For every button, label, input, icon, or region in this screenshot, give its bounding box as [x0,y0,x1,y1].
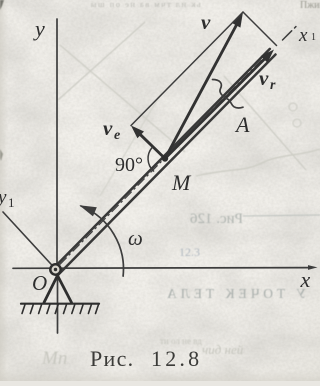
ghost rule right of mirrored caption [243,215,320,216]
parallelogram side from v_r corner to v tip [243,12,277,46]
vector v_e shaft [140,135,165,159]
left edge shading [0,0,8,381]
origin pin center dot [54,268,57,271]
vector v_r arrowhead [261,50,274,63]
svg-text:90°: 90° [115,154,143,176]
svg-text:v: v [201,10,211,34]
vector v_e arrowhead [131,126,144,139]
vector v_r shaft [165,59,264,158]
svg-text:ти ол не вд: ти ол не вд [160,336,202,346]
x1 axis dash-dot continuation [283,24,300,41]
bottom edge shading [0,370,320,381]
right angle arc at M [148,148,154,172]
origin pin circle O [50,264,60,274]
parallelogram side from v_e tip to v tip [131,12,243,126]
svg-text:O: O [32,271,47,295]
x axis arrowhead [308,265,318,270]
pin support triangle left leg [44,276,58,303]
svg-text:Рис. 126: Рис. 126 [189,211,243,227]
rod OA upper edge [53,49,270,269]
ghost wavy curve right [196,149,320,176]
svg-text:Мп: Мп [41,348,67,369]
y axis continuation below origin [57,275,59,333]
svg-text:1: 1 [8,195,15,210]
svg-text:Пжив: Пжив [300,0,320,11]
ghost diagonal line upper-left falling [60,45,185,152]
svg-text:y: y [0,187,7,208]
ghost diagonal line right [224,76,306,170]
vector v arrowhead [232,12,243,28]
svg-text:12.8: 12.8 [151,346,202,371]
ghost diagonal line mid-left [100,92,162,196]
svg-text:A: A [234,112,250,137]
ground hatching [22,305,99,314]
ghost small circle 2 [293,119,301,127]
svg-text:1: 1 [311,32,316,43]
svg-text:ω: ω [128,226,143,250]
svg-text:12.3: 12.3 [179,245,200,259]
vector v shaft [165,24,237,159]
ghost left edge nick [0,149,3,161]
break mark at A [213,80,244,108]
ghost top-left corner blob [0,0,4,10]
svg-text:v: v [259,66,269,90]
x axis [13,267,311,270]
svg-text:e: e [114,128,120,143]
svg-text:чид ней: чид ней [202,342,244,357]
svg-text:M: M [171,170,192,195]
ground line [21,303,99,305]
rod OA lower edge [59,55,276,275]
omega arc arrowhead [79,205,97,216]
svg-text:y: y [33,16,45,41]
ghost small circle 1 [289,103,297,111]
pin support triangle right leg [58,276,72,303]
svg-text:v: v [103,116,113,140]
svg-text:У ТОЧЕК ТЕЛА: У ТОЧЕК ТЕЛА [163,286,306,301]
ghost diagonal line upper-left rising [58,22,145,100]
y1 axis [3,212,56,269]
rod centerline dash-dot [60,54,268,265]
omega rotation arc [81,206,123,276]
point M dot [162,155,168,161]
svg-text:x: x [298,25,308,46]
svg-text:x: x [300,267,311,292]
svg-text:Рис.: Рис. [90,346,134,371]
svg-text:ьк ил тчм ва не оп шы: ьк ил тчм ва не оп шы [89,0,200,9]
y axis [56,19,58,264]
svg-text:r: r [270,78,276,93]
